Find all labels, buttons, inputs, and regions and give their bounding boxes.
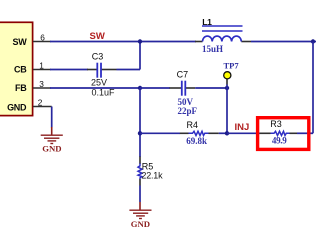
pin 1 stub — [33, 69, 51, 71]
svg-text:SW: SW — [90, 31, 105, 42]
wire FB riser down to R5 — [139, 88, 141, 157]
junction SW/C3 — [138, 39, 142, 43]
pin 2 stub — [33, 106, 52, 108]
junction R4 branch — [138, 131, 142, 135]
svg-text:SW: SW — [12, 37, 27, 47]
wire R4 to INJ junction — [219, 132, 227, 134]
junction FB node — [138, 86, 142, 90]
svg-text:1: 1 — [39, 60, 44, 70]
svg-text:2: 2 — [38, 97, 43, 107]
wire TP7 down to INJ rail — [226, 85, 228, 134]
wire CB pin to C3 — [50, 69, 88, 71]
highlight box around R3 — [258, 118, 309, 150]
IC U1 regulator body (cropped at left edge) — [0, 22, 33, 115]
svg-text:22pF: 22pF — [178, 106, 198, 116]
wire GND pin down — [51, 107, 53, 128]
wire right rail down — [312, 42, 314, 134]
pin 3 stub — [33, 87, 51, 89]
wire SW pin to L1 — [50, 41, 196, 43]
svg-text:0.1uF: 0.1uF — [91, 88, 115, 98]
wire INJ to R3 — [227, 132, 260, 134]
svg-text:3: 3 — [39, 79, 44, 89]
wire FB pin to junction — [50, 87, 140, 89]
resistor R5 — [138, 157, 142, 186]
wire C3 to riser — [117, 69, 141, 71]
junction INJ node — [225, 131, 229, 135]
wire FB junction to C7 — [140, 87, 170, 89]
wire R5 to GND — [139, 186, 141, 203]
svg-text:GND: GND — [42, 144, 61, 154]
test point TP7 — [224, 72, 231, 85]
svg-text:INJ: INJ — [235, 122, 250, 133]
wire junction to R4 — [140, 132, 180, 134]
resistor R3 — [260, 131, 297, 135]
ground (chip GND) — [41, 127, 63, 154]
svg-text:49.9: 49.9 — [272, 135, 287, 145]
svg-text:FB: FB — [15, 83, 27, 93]
svg-text:L1: L1 — [202, 17, 212, 27]
wire C7 to TP7 node — [195, 87, 227, 89]
wire R3 to right rail — [297, 132, 313, 134]
svg-text:CB: CB — [14, 65, 27, 75]
capacitor C7 — [170, 81, 196, 96]
ground (R5 GND) — [129, 202, 151, 229]
svg-text:15uH: 15uH — [202, 44, 223, 54]
svg-text:69.8k: 69.8k — [186, 136, 207, 146]
svg-text:C7: C7 — [177, 70, 189, 80]
svg-text:GND: GND — [131, 219, 150, 229]
junction output node — [311, 39, 315, 43]
svg-text:R4: R4 — [187, 120, 199, 130]
wire riser C3 up to SW — [139, 42, 141, 70]
inductor L1 — [195, 26, 251, 42]
pin 6 stub — [33, 41, 51, 43]
capacitor C3 — [87, 63, 117, 78]
svg-text:C3: C3 — [92, 51, 104, 61]
svg-text:25V: 25V — [91, 78, 107, 88]
junction C7/TP7 — [225, 86, 229, 90]
svg-text:22.1k: 22.1k — [141, 171, 163, 181]
resistor R4 — [180, 131, 219, 135]
svg-text:R3: R3 — [270, 119, 282, 129]
svg-text:6: 6 — [40, 32, 45, 42]
svg-text:GND: GND — [7, 102, 27, 112]
svg-text:TP7: TP7 — [224, 61, 240, 71]
wire L1 to right rail — [251, 41, 316, 43]
